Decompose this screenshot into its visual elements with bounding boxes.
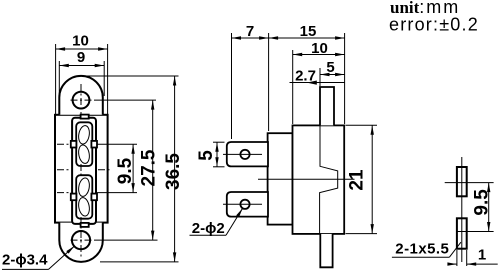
label 2-1x5.5 leader [449,242,461,257]
extension line dome apex bottom [100,261,179,263]
dimension 2.7 arrowhead [307,81,317,85]
terminal section centerline [461,157,463,262]
right centerline stub middle [98,169,111,171]
bottom mounting hole [72,231,90,249]
front view bottom dome [59,223,103,262]
dimension 10 (front width) extension lines [55,44,57,116]
svg-text:10: 10 [311,40,328,57]
dimension 10 side extension line [292,50,294,124]
label 2-phi2 leader [226,208,243,235]
svg-text:27.5: 27.5 [139,149,160,186]
svg-text:21: 21 [347,169,368,191]
terminal section bottom [457,218,467,248]
dimension 1 extension lines [456,250,458,266]
terminal section top [457,167,467,196]
label 2-phi3.4 leader [49,246,75,269]
dimension 21 extension lines [346,124,378,126]
extension line slot1 center [97,143,137,145]
left centerline stub slot1 [57,143,70,145]
dimension 15 line [269,37,345,39]
slot 1 spring contact upper [77,125,90,145]
connector bottom tab [81,223,89,227]
slot 1 side window left [71,141,77,148]
slot 1 side window right [91,141,97,148]
dimension 21 line [371,125,373,233]
tab 2 hole centerline [223,203,262,205]
extension line dome apex top [84,75,179,77]
connector top tab [81,115,89,119]
terminal tab 1 hole [240,150,249,159]
label 2-phi3.4 underline [2,268,49,270]
svg-text:36.5: 36.5 [163,153,184,190]
dimension 9 line [59,65,104,67]
extension line top hole center [94,99,156,101]
svg-text:9.5: 9.5 [472,189,493,216]
svg-text:2-ϕ3.4: 2-ϕ3.4 [2,252,48,269]
slot 2 spring contact upper [77,177,90,197]
svg-text:5: 5 [326,59,334,76]
svg-text:15: 15 [300,23,317,40]
extension line slot2 center [97,192,137,194]
label 2-phi2 underline [190,234,227,236]
extension line bottom hole center [94,239,158,241]
dimension 5 stem line [320,74,345,76]
dimension 5 stem extension line [319,68,321,86]
slot 2 spring contact lower [77,197,90,217]
internal contact profile [320,125,338,233]
svg-text:10: 10 [72,33,89,50]
side view insulator plate [268,133,293,224]
svg-text:1: 1 [478,247,486,264]
dimension 1 line right [467,263,498,265]
dimension 7/15 extension lines [231,33,233,139]
svg-text:error:±0.2: error:±0.2 [389,15,479,35]
bottom hole crosshair [71,239,92,241]
dimension 5 tab extension lines [213,141,225,143]
extension line terminal bottom center [457,231,494,233]
dimension 9 extension lines [58,61,60,96]
left centerline stub slot2 [57,192,70,194]
svg-text:7: 7 [246,23,254,40]
dimension 10 side line [293,54,345,56]
bottom stem [320,234,332,267]
side view main body [293,125,345,233]
dimension 5 tab line [216,142,218,167]
slot 1 [76,122,92,166]
dimension 36.5 line [174,76,176,262]
extension line terminal top center [445,182,494,184]
dimension 9.5 line [132,144,134,192]
slot 2 side window right [91,194,97,201]
slot 1 spring contact lower [77,144,90,164]
terminal tab 1 [227,142,268,166]
dimension 10 line [56,48,108,50]
svg-text:5: 5 [196,150,217,161]
dimension 7 line [232,37,269,39]
terminal tab 2 [227,192,268,217]
slot 2 [76,175,92,219]
front view top dome [59,76,103,115]
side view horizontal centerline [258,178,355,180]
vertical centerline front view [80,84,82,257]
left centerline stub middle [57,169,70,171]
svg-text:2-1x5.5: 2-1x5.5 [395,241,449,258]
top stem [320,87,334,125]
connector housing outline [72,118,96,224]
svg-text:2.7: 2.7 [295,68,316,85]
svg-text:9: 9 [77,49,85,66]
dimension 27.5 line [152,100,154,240]
svg-text:9.5: 9.5 [115,157,136,184]
dimension 2.7 line [290,82,345,84]
front view body plate [55,115,108,223]
terminal tab 2 hole [240,200,249,209]
dimension 1 line left [449,263,457,265]
tab 1 hole centerline [223,153,262,155]
svg-text:2-ϕ2: 2-ϕ2 [192,220,225,237]
top hole crosshair [71,99,92,101]
dimension 9.5 right line [488,183,490,232]
slot 2 side window left [71,194,77,201]
top mounting hole [73,92,90,109]
label 2-1x5.5 underline [392,256,450,258]
